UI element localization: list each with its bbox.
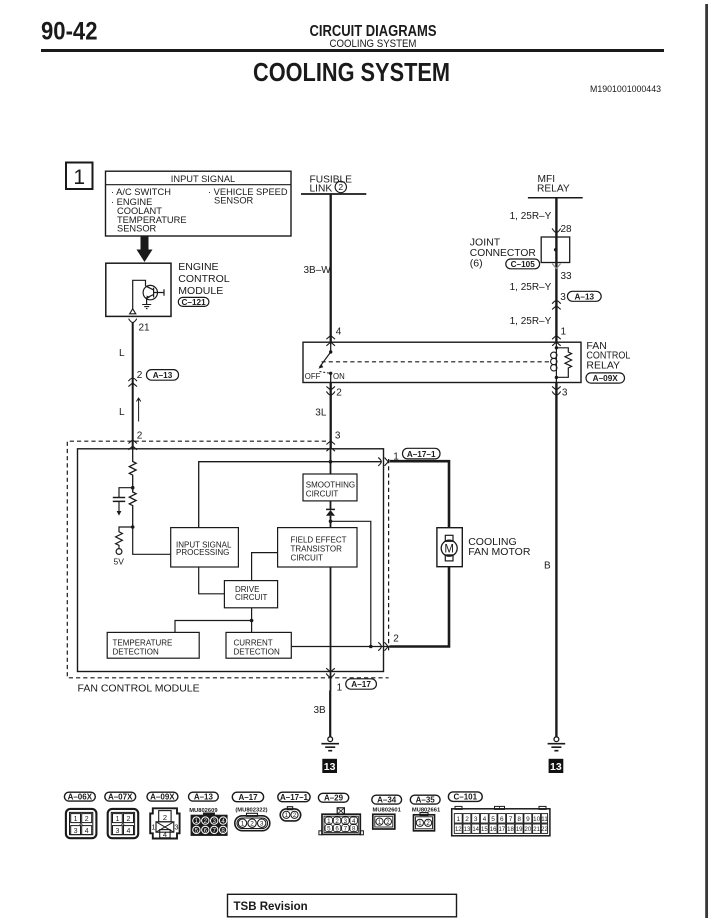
svg-text:2: 2 — [338, 182, 343, 192]
junction — [369, 645, 373, 649]
svg-text:3: 3 — [335, 431, 341, 442]
ON contact dot — [329, 372, 332, 375]
svg-text:A–06X: A–06X — [68, 793, 93, 802]
svg-text:PROCESSING: PROCESSING — [176, 548, 229, 557]
TSB revision box — [228, 894, 457, 917]
connector chevrons at relay pin 2 — [326, 386, 335, 395]
engine control module box U1 — [106, 263, 171, 316]
svg-text:COOLING SYSTEM: COOLING SYSTEM — [253, 57, 450, 87]
connector A-34 drawing — [373, 814, 395, 829]
connector label A-09X — [586, 373, 625, 383]
svg-text:21: 21 — [139, 322, 151, 333]
connector chevrons on MFI wire — [552, 301, 561, 310]
temperature detection box — [107, 632, 199, 658]
CONNROW — [64, 792, 550, 839]
capacitor C1 branch — [119, 488, 133, 498]
svg-text:ON: ON — [333, 372, 345, 381]
svg-text:1: 1 — [327, 818, 331, 825]
current detection box — [226, 632, 291, 658]
svg-text:20: 20 — [525, 827, 532, 833]
connector A-07X drawing — [108, 809, 139, 838]
connector C-101 label — [448, 792, 482, 802]
wire relay pin 3 to ground (B wire) — [555, 383, 557, 737]
svg-text:2: 2 — [85, 816, 89, 823]
ECM label text — [178, 261, 229, 297]
svg-text:16: 16 — [490, 827, 497, 833]
joint connector label — [470, 237, 536, 270]
svg-text:10: 10 — [533, 816, 541, 823]
svg-text:C–105: C–105 — [511, 260, 536, 269]
svg-text:TSB Revision: TSB Revision — [234, 901, 308, 913]
connector label A-13 — [567, 291, 601, 301]
svg-text:3: 3 — [260, 821, 264, 828]
svg-text:3: 3 — [562, 387, 568, 398]
svg-text:1, 25R–Y: 1, 25R–Y — [510, 282, 552, 293]
svg-text:CIRCUIT: CIRCUIT — [235, 593, 268, 602]
connector A-13 drawing — [191, 813, 228, 836]
svg-text:A–13: A–13 — [153, 371, 173, 380]
svg-text:1: 1 — [74, 816, 78, 823]
connector A-34 label — [372, 795, 402, 804]
svg-text:9: 9 — [526, 816, 530, 823]
svg-text:1: 1 — [337, 682, 343, 693]
svg-text:6: 6 — [335, 825, 339, 832]
svg-text:13: 13 — [550, 761, 562, 773]
svg-text:TEMPERATURE: TEMPERATURE — [113, 639, 173, 648]
svg-text:(6): (6) — [470, 257, 483, 269]
header rule — [41, 49, 664, 52]
svg-text:MODULE: MODULE — [178, 285, 223, 297]
svg-text:MU802601: MU802601 — [373, 807, 402, 813]
svg-text:8: 8 — [517, 816, 521, 823]
junction — [250, 619, 254, 623]
joint connector box — [541, 237, 570, 263]
MFI — [470, 174, 601, 346]
motor label — [468, 536, 531, 558]
relay coil wire from pin 1 — [555, 342, 557, 348]
connector chevrons at relay pin 1 — [552, 336, 561, 346]
svg-text:1: 1 — [73, 166, 85, 189]
connector A-13 label — [189, 792, 219, 801]
svg-text:8: 8 — [352, 825, 356, 832]
svg-text:2: 2 — [137, 431, 143, 442]
FUSIBLE — [301, 174, 366, 345]
svg-text:1: 1 — [561, 326, 567, 337]
connector A-17 label — [232, 792, 263, 802]
relay coil L1 — [551, 352, 557, 358]
GROUNDS — [314, 383, 566, 774]
svg-text:INPUT SIGNAL: INPUT SIGNAL — [171, 174, 235, 184]
wire module pin1 to ground — [329, 691, 331, 737]
TOPLEFT — [66, 163, 291, 317]
svg-text:FIELD EFFECT: FIELD EFFECT — [291, 536, 347, 545]
chevrons on A-17-1 line — [378, 458, 388, 466]
svg-text:5: 5 — [327, 825, 331, 832]
motor M1 circle — [441, 540, 457, 556]
wire pin3 to smoothing — [330, 449, 332, 474]
svg-text:C–121: C–121 — [182, 298, 207, 307]
svg-text:3: 3 — [474, 816, 478, 823]
svg-text:15: 15 — [481, 827, 488, 833]
cooling fan motor box — [437, 528, 462, 567]
connector fork at joint connector top — [552, 228, 561, 232]
svg-text:90-42: 90-42 — [41, 18, 98, 46]
svg-text:2: 2 — [465, 816, 469, 823]
relay switch wire from pin 4 — [330, 342, 332, 352]
input signal box — [106, 171, 292, 236]
motor top terminal — [445, 535, 453, 541]
arrow at joint connector bottom — [552, 264, 560, 269]
svg-text:1: 1 — [241, 821, 245, 828]
LEFTWIRE — [119, 319, 179, 450]
relay control dashed line — [322, 361, 552, 363]
svg-text:2: 2 — [204, 818, 208, 825]
svg-text:4: 4 — [352, 818, 356, 825]
junction at pin3 bus — [329, 460, 333, 464]
wire FET output to module pin 1 — [330, 567, 332, 691]
svg-text:A–07X: A–07X — [108, 793, 133, 802]
MODULE — [67, 441, 440, 695]
ECM transistor Q1 — [143, 285, 157, 299]
svg-text:13: 13 — [464, 827, 471, 833]
circled 2 — [335, 181, 346, 192]
wire DRIVE to FET — [252, 553, 278, 581]
svg-text:FAN MOTOR: FAN MOTOR — [468, 546, 531, 558]
svg-text:3: 3 — [74, 828, 78, 835]
svg-text:ENGINE: ENGINE — [178, 261, 218, 273]
chevrons at module output — [326, 668, 335, 677]
svg-text:4: 4 — [163, 830, 167, 839]
svg-text:8: 8 — [221, 827, 225, 834]
connector A-35 label — [410, 795, 440, 804]
connector label C-105 — [506, 259, 540, 269]
relay switch pivot — [329, 350, 332, 353]
svg-text:3: 3 — [212, 818, 216, 825]
resistor R1 on pin2 branch — [129, 449, 136, 488]
svg-text:A–09X: A–09X — [593, 374, 619, 383]
svg-text:2: 2 — [250, 821, 254, 828]
ECM internal open triangle — [130, 309, 136, 314]
wire ISP bottom to drive circuit — [199, 567, 225, 594]
connector chevrons at module pin 3 entry — [326, 441, 335, 451]
wire diode to FET — [330, 516, 332, 528]
ground number 13 — [549, 759, 564, 773]
svg-text:CURRENT: CURRENT — [234, 639, 273, 648]
svg-text:7: 7 — [344, 825, 348, 832]
svg-text:3B: 3B — [314, 705, 327, 716]
svg-text:5: 5 — [491, 816, 495, 823]
joint connector center dot — [554, 248, 557, 251]
relay label — [586, 340, 630, 372]
svg-text:SENSOR: SENSOR — [214, 196, 254, 206]
svg-text:5V: 5V — [114, 557, 125, 567]
svg-text:7: 7 — [509, 816, 513, 823]
resistor R2 — [129, 488, 136, 527]
svg-text:A–34: A–34 — [377, 796, 397, 805]
svg-text:A–29: A–29 — [324, 794, 344, 803]
wire MFI relay to fan control relay pin 1 — [555, 198, 557, 343]
connector chevrons at A-13 — [128, 378, 137, 387]
chevrons on motor return line — [378, 642, 388, 650]
connector chevrons at relay pin 4 — [326, 336, 335, 346]
svg-text:M1901001000443: M1901001000443 — [590, 84, 661, 95]
svg-text:19: 19 — [516, 827, 523, 833]
svg-text:3: 3 — [115, 828, 119, 835]
svg-text:1, 25R–Y: 1, 25R–Y — [510, 211, 552, 222]
connector A-35 drawing — [414, 813, 435, 831]
svg-text:18: 18 — [507, 827, 514, 833]
relay switch blade — [320, 352, 331, 367]
MOTOR — [390, 461, 531, 646]
connector C-101 drawing — [452, 806, 550, 835]
FOOTER — [228, 894, 457, 917]
drive circuit box — [224, 581, 277, 608]
svg-text:A–17–1: A–17–1 — [280, 793, 309, 802]
wire relay pin 2 to module pin 3 — [330, 383, 332, 449]
svg-text:2: 2 — [127, 816, 131, 823]
svg-text:M: M — [444, 543, 454, 555]
wire coil to pin 3 — [555, 377, 557, 382]
svg-text:2: 2 — [393, 634, 399, 645]
svg-text:DETECTION: DETECTION — [113, 648, 159, 657]
svg-text:(MU802322): (MU802322) — [235, 808, 267, 814]
big down arrow — [137, 236, 153, 262]
connector A-29 drawing — [319, 808, 364, 835]
svg-text:1: 1 — [115, 816, 119, 823]
connector A-17-1 label — [278, 792, 310, 802]
input signal processing box — [171, 528, 239, 567]
svg-text:12: 12 — [455, 827, 462, 833]
ground number 13 — [322, 759, 337, 773]
svg-text:4: 4 — [127, 828, 131, 835]
svg-text:L: L — [119, 407, 125, 418]
wire junction to temperature detection — [175, 621, 252, 633]
wire fusible link to relay pin 4 — [330, 194, 332, 342]
coil top junction — [555, 346, 558, 349]
svg-text:7: 7 — [212, 827, 216, 834]
svg-text:6: 6 — [500, 816, 504, 823]
ground G2 — [554, 737, 559, 742]
svg-text:FAN CONTROL MODULE: FAN CONTROL MODULE — [78, 683, 200, 695]
svg-text:C–101: C–101 — [454, 793, 478, 802]
svg-text:3: 3 — [344, 818, 348, 825]
motor bottom terminal — [445, 555, 453, 561]
fusible link underline — [301, 193, 366, 195]
svg-text:B: B — [544, 560, 551, 571]
svg-text:4: 4 — [336, 326, 342, 337]
svg-text:1: 1 — [195, 818, 199, 825]
connector chevrons at relay pin 3 — [552, 386, 561, 395]
wire current detection to right junction — [291, 646, 389, 648]
svg-text:4: 4 — [483, 816, 487, 823]
MFI relay underline — [528, 197, 583, 199]
svg-text:33: 33 — [561, 271, 573, 282]
svg-text:RELAY: RELAY — [586, 360, 620, 372]
svg-text:A–35: A–35 — [416, 796, 436, 805]
svg-text:3: 3 — [174, 822, 178, 831]
svg-text:A–13: A–13 — [194, 793, 214, 802]
connector chevrons at module entry — [128, 440, 137, 450]
connector A-09X label — [147, 792, 178, 801]
RELAY — [303, 340, 631, 451]
coil bottom junction — [555, 376, 558, 379]
svg-text:4: 4 — [221, 818, 225, 825]
junction — [131, 525, 135, 529]
wire ISP top to bus — [199, 462, 381, 528]
svg-text:14: 14 — [472, 827, 479, 833]
svg-text:21: 21 — [533, 827, 540, 833]
svg-text:2: 2 — [335, 818, 339, 825]
svg-text:6: 6 — [204, 827, 208, 834]
ECM internal wire L-shape — [133, 280, 146, 309]
connector A-07X label — [105, 792, 136, 801]
svg-text:2: 2 — [163, 813, 167, 822]
svg-text:A–09X: A–09X — [150, 793, 175, 802]
svg-text:3L: 3L — [315, 408, 327, 419]
svg-text:SMOOTHING: SMOOTHING — [306, 481, 355, 490]
connector label C-121 — [178, 297, 209, 306]
connector A-17 drawing — [235, 813, 270, 830]
svg-text:28: 28 — [561, 224, 573, 235]
svg-text:1: 1 — [151, 822, 155, 831]
connector label A-17-1 — [403, 448, 441, 459]
svg-text:3: 3 — [560, 292, 566, 303]
connector A-06X drawing — [66, 809, 97, 838]
switch throw dashes — [320, 372, 330, 374]
svg-text:A–17: A–17 — [238, 793, 258, 802]
fan control module dashed boundary — [67, 441, 388, 678]
thick wire A-17-1 pin1 to motor — [390, 461, 450, 528]
5V source circle — [116, 549, 122, 555]
svg-text:CIRCUIT: CIRCUIT — [291, 554, 324, 563]
svg-text:4: 4 — [85, 828, 89, 835]
svg-text:A–17: A–17 — [351, 680, 371, 689]
svg-text:13: 13 — [324, 761, 336, 773]
svg-text:OFF: OFF — [305, 372, 321, 381]
wire smoothing to diode — [330, 501, 332, 509]
resistor R3 to 5V — [116, 527, 133, 549]
wire junction to input signal processing — [133, 527, 171, 554]
svg-text:A–17–1: A–17–1 — [407, 450, 436, 459]
connector fork at ECM pin 21 — [129, 319, 137, 323]
svg-text:RELAY: RELAY — [537, 184, 570, 195]
svg-text:CONTROL: CONTROL — [178, 273, 229, 285]
thick wire motor return to module pin 2 — [390, 567, 450, 647]
svg-text:2: 2 — [336, 387, 342, 398]
connector A-17-1 drawing — [280, 807, 301, 821]
svg-text:DETECTION: DETECTION — [234, 648, 280, 657]
svg-text:TRANSISTOR: TRANSISTOR — [291, 545, 343, 554]
svg-text:17: 17 — [498, 827, 505, 833]
junction at diode bottom — [329, 520, 333, 524]
diode D1 — [326, 508, 335, 510]
smoothing circuit box — [303, 474, 357, 501]
wire ECM to module pin 2 — [132, 323, 134, 449]
connector A-29 label — [318, 793, 348, 802]
svg-text:· A/C SWITCH: · A/C SWITCH — [111, 187, 171, 197]
svg-text:CIRCUIT: CIRCUIT — [306, 490, 339, 499]
key number box 1 — [66, 163, 93, 190]
junction — [131, 486, 135, 490]
svg-text:3B–W: 3B–W — [304, 265, 332, 276]
capacitor ground arrow — [117, 511, 122, 516]
svg-text:5: 5 — [195, 827, 199, 834]
ECM transistor ground — [142, 305, 151, 309]
MFI relay label — [537, 174, 570, 194]
direction arrow up — [136, 398, 140, 421]
ground G1 — [328, 737, 333, 742]
connector label A-17 — [346, 679, 377, 689]
svg-text:L: L — [119, 348, 125, 359]
fusible link label — [310, 174, 353, 194]
connector label A-13 — [147, 370, 179, 381]
wire drive to current detection — [251, 608, 253, 633]
svg-text:22: 22 — [541, 827, 548, 833]
connector A-06X label — [64, 792, 95, 801]
field effect transistor circuit box — [278, 528, 357, 567]
wire junction to right branch — [331, 521, 371, 646]
svg-text:A–13: A–13 — [575, 292, 595, 301]
wire ON contact to pin 2 — [330, 373, 332, 382]
fan control module inner box — [78, 449, 384, 672]
svg-text:1: 1 — [456, 816, 460, 823]
svg-text:11: 11 — [541, 816, 548, 823]
right page border — [705, 4, 708, 918]
fan control relay box K1 — [303, 342, 581, 382]
svg-text:COOLING SYSTEM: COOLING SYSTEM — [330, 38, 417, 50]
svg-text:1, 25R–Y: 1, 25R–Y — [510, 316, 552, 327]
svg-text:SENSOR: SENSOR — [117, 224, 157, 234]
svg-text:2: 2 — [137, 370, 143, 381]
relay parallel resistor R — [556, 348, 571, 378]
svg-text:LINK: LINK — [310, 183, 333, 194]
connector A-09X drawing — [150, 808, 179, 839]
